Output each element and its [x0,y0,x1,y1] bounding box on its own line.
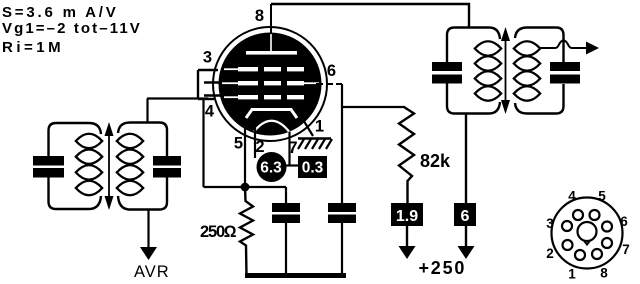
wire anode pin8 to output transformer [271,4,469,28]
svg-text:8: 8 [255,7,264,25]
grid row 1 [224,67,304,71]
voltage box 6 [454,203,476,226]
chassis hatch 5 [326,139,332,149]
chassis hatch 4 [319,139,325,149]
svg-text:3: 3 [203,49,212,67]
svg-text:6: 6 [461,208,470,225]
svg-text:1: 1 [568,267,576,282]
screen grid dashed lead pin6 [316,83,342,85]
tube V1 envelope outer circle [213,27,327,141]
grid tab pin4 lead [198,98,214,100]
svg-text:Vg1=–2 tot–11V: Vg1=–2 tot–11V [2,20,142,37]
capacitor cathode bypass lead [285,187,287,203]
svg-text:6.3: 6.3 [260,160,282,177]
riser to grid wire [146,99,148,124]
primary coil connect bottom [89,196,101,209]
pin2 heater wire [254,128,256,158]
socket pin 3 hole [562,221,572,231]
svg-text:2: 2 [255,138,264,156]
capacitor screen bypass C2 [328,203,356,212]
grid inner lead b [204,94,221,97]
secondary cap C4 [153,156,181,166]
screen feed wire to 82k [342,106,405,108]
svg-text:7: 7 [622,242,630,257]
chassis ground bar [298,137,331,139]
bottom ground rail [245,273,346,278]
svg-text:4: 4 [205,103,215,121]
socket pin 8 hole [592,249,602,259]
secondary loop right [118,177,167,210]
arrow below 1.9 [406,226,408,250]
socket pin 4 hole [573,210,583,220]
resistor 250 ohm [240,187,253,276]
svg-text:250Ω: 250Ω [200,223,237,241]
svg-text:1: 1 [315,118,324,136]
tube V1 electrode disc [219,33,322,136]
cathode node wire [204,186,287,188]
anode lead white inside disc [270,34,272,53]
grid row 2 [222,81,319,85]
grid return wire down [202,99,204,188]
socket pin 7 hole [602,238,612,248]
primary cap C5 [432,62,462,71]
socket pin 2 hole [563,240,573,250]
socket key circle [578,222,597,241]
svg-text:8: 8 [600,266,608,281]
svg-text:S=3.6 m A/V: S=3.6 m A/V [2,4,119,21]
heater annotation 6.3 [257,152,287,182]
tuning arrow [505,36,507,105]
AVR wire [147,210,149,251]
secondary coil connect top [118,123,130,134]
primary cap C3 [33,156,64,166]
output arrow [586,42,599,55]
wire transformer to 6 box [465,114,467,204]
grid wire from IF transformer [147,97,208,99]
svg-text:82k: 82k [420,151,451,171]
chassis hatch 2 [305,139,311,149]
chassis hatch 1 [298,139,304,149]
pin5 wire to cathode junction [244,125,246,187]
heater annotation 0.3 box [298,156,327,178]
svg-text:5: 5 [234,135,243,153]
svg-text:6: 6 [327,62,336,80]
primary coil connect top [89,123,101,134]
socket circle [552,198,623,269]
pin7 heater wire [288,132,290,165]
grid inner lead a [204,81,221,84]
svg-text:4: 4 [568,189,576,204]
anode bar [246,51,297,55]
cathode dome [254,121,289,132]
junction dot [241,183,250,192]
socket pin 1 hole [575,250,585,260]
primary coil L3 [475,41,501,101]
socket keyway [584,240,591,245]
svg-text:AVR: AVR [134,263,170,281]
capacitor cathode bypass C1 [272,203,300,212]
grid row 3 [224,95,304,99]
secondary cap C6 [550,62,580,71]
beam plate [246,110,297,119]
grid tab pin3 lead [198,69,218,71]
secondary coil L4 [514,41,540,101]
svg-text:3: 3 [546,216,554,231]
svg-text:Ri=1M: Ri=1M [2,39,64,56]
wire pin8 lead into tube [270,4,272,34]
secondary coil connect [515,28,527,39]
pin1 lead to chassis [299,113,313,136]
screen wire down [341,84,343,203]
link 6.3 to 0.3 [285,164,299,166]
tuning arrow [108,131,110,201]
secondary coil L2 [117,134,143,196]
primary coil L1 [76,134,102,196]
svg-text:2: 2 [546,246,554,261]
arrow below 6 [465,226,467,250]
svg-text:+250: +250 [419,258,467,278]
svg-text:5: 5 [598,189,606,204]
socket pin 5 hole [590,210,600,220]
voltage box 1.9 [391,203,423,226]
chassis hatch 3 [312,139,318,149]
primary loop left [447,28,489,63]
output line with hop [540,41,587,49]
resistor 82k [399,107,414,203]
grid tab left side [197,70,199,99]
svg-text:1.9: 1.9 [396,208,418,225]
primary loop left [49,123,90,156]
svg-text:6: 6 [620,214,628,229]
svg-text:0.3: 0.3 [302,160,324,177]
socket pin 6 hole [602,222,612,232]
